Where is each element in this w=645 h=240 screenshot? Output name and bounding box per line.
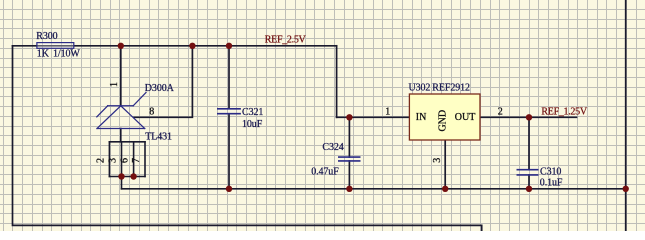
svg-text:2: 2 bbox=[95, 158, 106, 163]
svg-text:1K: 1K bbox=[37, 49, 50, 60]
svg-text:3: 3 bbox=[432, 158, 443, 163]
svg-text:C324: C324 bbox=[322, 142, 343, 153]
svg-text:R300: R300 bbox=[36, 31, 57, 42]
svg-text:0.1uF: 0.1uF bbox=[540, 177, 563, 188]
svg-text:C321: C321 bbox=[242, 107, 263, 118]
junction TL431 anode pin 6 bbox=[130, 173, 136, 179]
svg-text:GND: GND bbox=[437, 110, 448, 132]
junction bus at C321 bbox=[226, 186, 232, 192]
svg-text:8: 8 bbox=[149, 107, 154, 118]
wire C324 bottom lead bbox=[348, 161, 350, 189]
svg-text:D300A: D300A bbox=[145, 83, 175, 94]
junction bus at C310 bbox=[526, 186, 532, 192]
svg-text:1: 1 bbox=[385, 106, 390, 117]
svg-text:0.47uF: 0.47uF bbox=[311, 166, 339, 177]
wire pin2 of U302 / REF_1.25V bbox=[480, 116, 577, 118]
junction top wire at TL431 cathode bbox=[189, 43, 195, 49]
capacitor C321 bbox=[217, 109, 241, 114]
svg-text:1/10W: 1/10W bbox=[53, 49, 80, 60]
wire C310 top lead bbox=[528, 117, 530, 169]
svg-text:2: 2 bbox=[498, 106, 503, 117]
svg-text:7: 7 bbox=[131, 158, 142, 163]
svg-text:TL431: TL431 bbox=[145, 132, 172, 143]
resistor R300 bbox=[37, 43, 74, 49]
svg-text:1: 1 bbox=[109, 82, 120, 87]
shunt regulator D300A TL431 symbol bbox=[97, 93, 146, 129]
wire C321 top lead bbox=[228, 46, 230, 109]
capacitor C310 bbox=[517, 170, 539, 175]
svg-text:REF2912: REF2912 bbox=[432, 83, 470, 94]
svg-text:REF_2.5V: REF_2.5V bbox=[265, 34, 307, 45]
wire U302 pin3 drop bbox=[444, 140, 446, 189]
wire C324 top lead bbox=[348, 117, 350, 157]
wire C310 bottom lead bbox=[528, 175, 530, 189]
wire right vertical full height bbox=[625, 0, 627, 232]
wire TL431 anode pins net bbox=[109, 129, 145, 189]
wire REF_2.5V top horizontal bbox=[13, 45, 337, 47]
junction TL431 anode pin 3 bbox=[118, 173, 124, 179]
junction bus at U302 pin3 bbox=[442, 186, 448, 192]
junction bus at right vertical bbox=[623, 186, 629, 192]
svg-text:OUT: OUT bbox=[455, 112, 476, 123]
svg-text:10uF: 10uF bbox=[242, 119, 263, 130]
wire drop from top to pin1 tee bbox=[336, 46, 338, 118]
wire ground bus horizontal bbox=[122, 188, 626, 190]
wire TL431 cathode pin 8 bbox=[134, 46, 192, 118]
wire pin1 of U302 bbox=[337, 116, 410, 118]
svg-text:C310: C310 bbox=[540, 167, 561, 178]
svg-text:U302: U302 bbox=[409, 83, 431, 94]
junction bus at C324 bbox=[346, 186, 352, 192]
svg-text:3: 3 bbox=[108, 158, 119, 163]
junction top wire at C321 bbox=[226, 43, 232, 49]
junction top wire at TL431 ref bbox=[118, 43, 124, 49]
regulator U302 REF2912 body bbox=[409, 94, 480, 140]
junction pin2 at C310 bbox=[526, 114, 532, 120]
wire C321 bottom lead bbox=[228, 114, 230, 189]
capacitor C324 bbox=[338, 157, 361, 161]
wire TL431 ref pin drop bbox=[120, 46, 122, 106]
svg-text:REF_1.25V: REF_1.25V bbox=[541, 106, 587, 117]
svg-text:IN: IN bbox=[416, 112, 427, 123]
wire left vertical + bottom horizontal + drop off bottom bbox=[13, 46, 482, 232]
junction pin1 tee at C324 bbox=[346, 114, 352, 120]
svg-text:6: 6 bbox=[120, 158, 131, 163]
